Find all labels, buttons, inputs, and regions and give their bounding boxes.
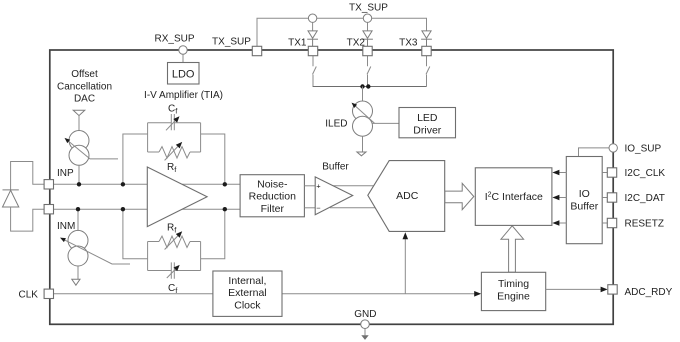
ground GND arrow [361,335,368,340]
svg-text:INM: INM [57,221,75,232]
block arrow ADC to I2C [445,183,474,209]
pin CLK pad [44,289,53,298]
box LDO [168,63,200,85]
diode D3 (external LED at TX3) [421,31,432,46]
wire filter to buffer lower [304,207,315,209]
junction INM-source [76,207,80,211]
svg-text:Internal,: Internal, [228,275,266,287]
wire INM row [44,208,147,210]
svg-text:Engine: Engine [497,291,530,303]
wire TIA upper feedback right [201,134,225,184]
node TX_SUP rail terminal 2 [363,14,371,22]
box I2C Interface [475,168,552,226]
junction INP-feedback [121,182,125,186]
pin I2C_CLK pad [607,168,616,177]
svg-text:Rf: Rf [167,162,177,174]
arrow Rf upper adjustable [165,144,181,161]
pin TX3 pad [422,46,431,55]
op-amp buffer [315,177,353,215]
pin ADC_RDY pad [608,285,617,294]
wire source to INP line [78,165,80,184]
wire TIA upper feedback left [123,134,148,184]
switch S2 below TX2 pad [367,56,371,87]
current source offset-cancellation (INM side) [68,230,88,266]
op-amp TIA [147,167,207,227]
svg-text:IO: IO [579,188,590,200]
network Rf/Cf upper frame [148,123,201,152]
wire TX_SUP riser to external LED rail [257,18,427,46]
svg-text:Cf: Cf [168,104,178,116]
wire GND stub [364,329,366,336]
pin TX1 pad [308,46,317,55]
wire I2C_DAT stub [602,197,607,199]
svg-text:ILED: ILED [325,119,347,130]
wire TX common bus [313,86,427,88]
wire ILED source to LED Driver [372,122,399,124]
wire photodiode anode loop [11,162,45,190]
svg-text:Offset: Offset [71,69,98,80]
svg-text:TX3: TX3 [399,37,418,48]
svg-text:I2C Interface: I2C Interface [485,191,543,203]
svg-text:CLK: CLK [19,289,39,300]
svg-text:Reduction: Reduction [249,190,296,202]
junction bus-ILED [360,84,364,88]
svg-text:DAC: DAC [74,94,95,105]
wire ILED sink stub [362,136,364,152]
wire Timing Engine to ADC_RDY [546,288,601,290]
pin TX_SUP pad [252,46,261,55]
arrow Cf upper adjustable [166,118,178,130]
svg-text:Rf: Rf [167,223,177,235]
arrow ILED sink (open) [357,152,366,156]
wire I2C_CLK stub [602,172,607,174]
wire INM to lower current source [77,209,79,230]
pin RESETZ pad [607,218,616,227]
svg-text:External: External [228,287,267,299]
wire IO Buffer to I2C RESETZ [558,222,566,224]
wire buffer to ADC upper [330,185,376,187]
svg-text:Driver: Driver [413,125,442,137]
svg-text:TX1: TX1 [288,37,307,48]
svg-text:IO_SUP: IO_SUP [625,144,662,155]
wire source to ground arrow [77,266,79,279]
arrow into Timing Engine [474,291,481,297]
wire photodiode cathode loop [11,207,45,231]
arrow ILED adjustable [354,104,375,123]
wire RX_SUP to LDO [182,54,184,62]
wire bus to ILED source [362,87,364,102]
ground INM source (open arrow) [72,279,80,285]
svg-text:Cancellation: Cancellation [57,81,112,92]
wire INP row [44,183,147,185]
box Noise-Reduction Filter [240,175,304,217]
wire CLK row [53,293,475,295]
arrow into I2C (CLK) [552,170,559,176]
svg-text:I2C_DAT: I2C_DAT [625,193,665,204]
wire TIA lower feedback left [123,209,148,259]
pin INM pad [44,205,53,214]
svg-text:I-V Amplifier (TIA): I-V Amplifier (TIA) [144,90,223,101]
current source ILED (LED current DAC) [353,101,373,136]
svg-text:ADC: ADC [396,190,419,202]
junction INP-DAC [77,182,81,186]
wire IO Buffer to I2C CLK [558,172,566,174]
wire LED2 cathode stub [367,22,369,31]
diode D1 (external LED at TX1) [307,31,318,46]
wire ADC clock branch [404,239,406,294]
arrow into I2C (RESETZ) [552,220,559,226]
block ADC [368,161,445,232]
network Rf/Cf lower frame [148,242,201,271]
pin RX_SUP (terminal circle) [179,46,187,54]
arrow Cf lower adjustable [167,267,178,278]
svg-text:RESETZ: RESETZ [625,218,664,229]
box Timing Engine [481,272,545,310]
svg-text:Cf: Cf [168,283,178,295]
current source offset-cancellation (INP side) [69,131,89,166]
device outline (main chip boundary) [50,50,613,324]
wire LED1 cathode stub [312,22,314,31]
svg-text:Noise-: Noise- [257,178,288,190]
wire TIA lower feedback right [201,209,225,259]
arrow Rf lower adjustable [165,233,181,249]
wire buffer to ADC lower [330,207,378,209]
svg-text:Filter: Filter [261,203,285,215]
junction output upper [223,182,227,186]
diode D2 (external LED at TX2) [362,31,373,46]
svg-text:LDO: LDO [172,68,195,80]
arrow DAC source adjustable [66,139,118,159]
svg-text:Clock: Clock [234,299,261,311]
svg-text:TX_SUP: TX_SUP [349,3,388,14]
svg-text:Buffer: Buffer [570,200,598,212]
photodiode PD1 [3,190,19,207]
pin TX2 pad [363,46,372,55]
svg-text:TX_SUP: TX_SUP [212,37,251,48]
pin GND (terminal circle) [361,320,370,329]
wire TIA output lower to filter [180,208,240,210]
svg-text:Timing: Timing [498,278,529,290]
box LED Driver [399,108,456,138]
pin I2C_DAT pad [607,193,616,202]
switch S1 below TX1 pad [313,56,317,87]
capacitor Cf lower plates [171,262,174,278]
switch S3 below TX3 pad [426,56,430,87]
arrow INM source adjustable [62,238,130,264]
junction bus-TX2 [366,84,370,88]
arrow Offset DAC output (open) [73,110,85,115]
pin INP pad [44,180,53,189]
wire IO Buffer to I2C DAT [558,197,566,199]
box IO Buffer [566,157,602,244]
arrow ADC_RDY [601,287,608,293]
arrow into I2C (DAT) [552,195,559,201]
wire IO_SUP to IO Buffer [579,148,610,157]
svg-text:RX_SUP: RX_SUP [154,34,194,45]
capacitor Cf upper plates [171,114,174,130]
svg-text:TX2: TX2 [347,37,366,48]
svg-text:ADC_RDY: ADC_RDY [625,287,673,298]
wire RESETZ stub [602,222,607,224]
svg-text:+: + [316,182,321,191]
node TX_SUP rail terminal 1 [308,14,316,22]
pin IO_SUP (terminal circle) [609,144,617,152]
arrow ADC clock (up) [403,232,409,239]
junction output lower [223,207,227,211]
wire filter to buffer upper [304,185,315,187]
wire DAC arrow to current source [78,116,80,131]
resistor Rf upper zigzag [159,147,190,158]
svg-text:Buffer: Buffer [322,162,349,173]
svg-text:GND: GND [354,309,376,320]
wire TIA output upper to filter [180,183,240,185]
resistor Rf lower zigzag [159,236,190,247]
box Internal External Clock [213,271,282,316]
svg-text:−: − [316,203,321,212]
block arrow Timing Engine to I2C [501,226,524,272]
junction INM-feedback [121,207,125,211]
svg-text:INP: INP [57,168,74,179]
svg-text:LED: LED [417,112,438,124]
svg-text:I2C_CLK: I2C_CLK [625,168,666,179]
